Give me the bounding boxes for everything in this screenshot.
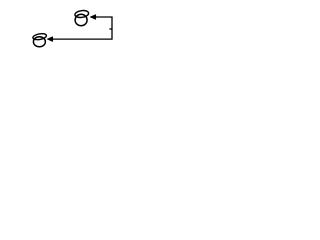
- wire stub at source point: [109, 28, 112, 30]
- node U1 cap: [74, 10, 89, 19]
- arrowhead into top node: [90, 15, 96, 20]
- wire from source trunk to top node: [53, 17, 113, 39]
- node U2 cap: [32, 33, 46, 41]
- node U1 body: [75, 14, 87, 26]
- arrowhead into bottom node: [47, 37, 53, 42]
- node U2 body: [33, 37, 45, 47]
